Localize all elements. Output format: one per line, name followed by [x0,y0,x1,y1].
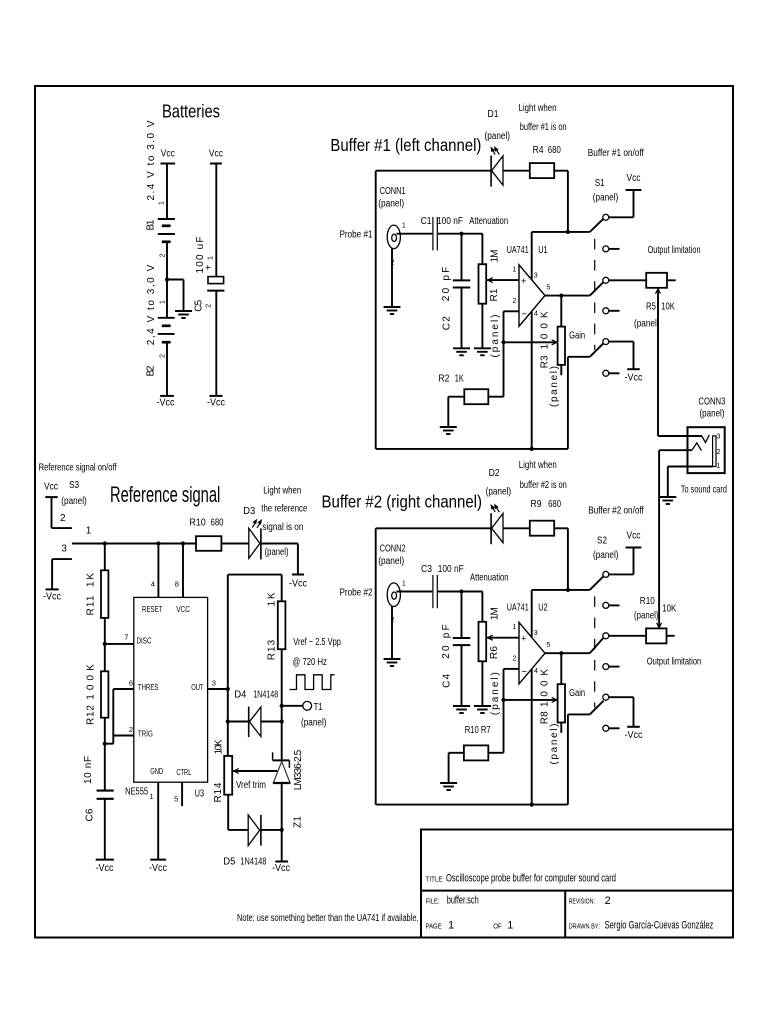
svg-text:5: 5 [174,794,178,803]
svg-text:-Vcc: -Vcc [157,398,175,409]
svg-text:D3: D3 [243,506,255,517]
svg-text:-Vcc: -Vcc [289,579,307,590]
svg-text:TRIG: TRIG [138,729,153,739]
svg-text:100 nF: 100 nF [437,216,463,227]
svg-text:R10: R10 [640,596,655,607]
svg-text:(panel): (panel) [700,408,725,419]
svg-text:R10: R10 [189,518,206,529]
svg-text:+: + [521,276,527,287]
svg-text:Attenuation: Attenuation [469,216,508,227]
svg-text:CTRL: CTRL [176,767,191,777]
svg-text:B1: B1 [146,219,157,230]
svg-text:1K: 1K [267,592,278,606]
svg-text:@ 720 Hz: @ 720 Hz [293,657,327,668]
svg-text:(panel): (panel) [634,319,660,330]
svg-text:signal is on: signal is on [262,522,303,533]
svg-text:1M: 1M [490,607,501,620]
svg-text:(panel): (panel) [549,724,560,765]
svg-text:U2: U2 [538,603,548,614]
svg-text:7: 7 [124,633,128,642]
svg-text:100 nF: 100 nF [438,564,464,575]
svg-text:+: + [521,634,527,645]
svg-text:1: 1 [513,267,517,274]
svg-text:2: 2 [605,895,611,907]
svg-text:C5: C5 [194,299,205,311]
svg-text:(panel): (panel) [61,496,87,507]
svg-text:B2: B2 [146,365,157,376]
svg-text:(panel): (panel) [378,199,404,210]
svg-text:3: 3 [534,630,538,637]
svg-text:Vcc: Vcc [209,149,223,160]
svg-text:C3: C3 [421,564,432,575]
svg-text:RESET: RESET [142,604,163,614]
svg-text:S1: S1 [595,178,605,189]
svg-text:10K: 10K [214,739,225,754]
svg-text:UA741: UA741 [507,245,529,256]
svg-text:2: 2 [513,656,517,663]
svg-text:20 pF: 20 pF [441,624,452,658]
svg-text:CONN1: CONN1 [380,186,406,197]
svg-text:R6: R6 [489,646,500,659]
svg-text:680: 680 [548,145,561,156]
svg-text:Probe #2: Probe #2 [340,587,373,598]
svg-text:8: 8 [175,579,179,588]
svg-text:-Vcc: -Vcc [207,398,225,409]
svg-text:Vcc: Vcc [627,531,641,542]
svg-text:Note: use something better tha: Note: use something better than the UA74… [237,913,419,924]
svg-text:PAGE: PAGE [426,924,442,931]
svg-text:2: 2 [206,304,213,308]
svg-text:Vcc: Vcc [161,149,175,160]
svg-text:2: 2 [159,354,166,358]
svg-text:Light when: Light when [519,103,557,114]
svg-text:1: 1 [159,300,166,304]
svg-text:T1: T1 [314,702,323,713]
svg-text:2: 2 [129,725,133,734]
svg-text:(panel): (panel) [549,366,560,407]
svg-text:2: 2 [60,513,66,524]
svg-text:CONN3: CONN3 [698,397,725,408]
svg-text:DRAWN BY:: DRAWN BY: [569,924,600,931]
svg-text:(panel): (panel) [486,487,512,498]
svg-text:Output limitation: Output limitation [648,245,701,256]
svg-text:Probe #1: Probe #1 [340,230,373,241]
svg-text:3: 3 [717,434,721,441]
svg-text:R2: R2 [438,374,449,385]
svg-text:1K: 1K [455,374,464,385]
svg-text:U3: U3 [195,789,205,800]
svg-text:REVISION:: REVISION: [569,899,595,906]
svg-text:2: 2 [159,253,166,257]
svg-text:−: − [522,667,528,678]
svg-text:1: 1 [150,792,154,801]
svg-text:R14: R14 [213,782,224,802]
svg-text:(panel): (panel) [634,611,659,622]
svg-text:Reference signal on/off: Reference signal on/off [39,463,117,474]
svg-text:Buffer #1 on/off: Buffer #1 on/off [588,148,644,159]
svg-text:Buffer #2 (right channel): Buffer #2 (right channel) [322,492,483,512]
svg-text:Gain: Gain [569,688,585,699]
svg-text:3: 3 [212,678,216,687]
svg-text:4: 4 [534,311,538,318]
svg-text:To sound card: To sound card [681,485,727,496]
svg-text:R12: R12 [85,705,96,725]
svg-text:10K: 10K [661,302,675,313]
svg-text:buffer.sch: buffer.sch [447,895,479,907]
svg-text:-Vcc: -Vcc [625,373,643,384]
svg-text:Buffer #2 on/off: Buffer #2 on/off [588,506,644,517]
svg-text:NE555: NE555 [125,787,148,798]
svg-text:(panel): (panel) [378,556,404,567]
svg-text:D2: D2 [489,468,500,479]
svg-text:2.4 V to 3.0 V: 2.4 V to 3.0 V [146,120,157,200]
svg-text:D5: D5 [223,857,235,868]
svg-text:2: 2 [513,298,517,305]
svg-text:Vref ~ 2.5 Vpp: Vref ~ 2.5 Vpp [293,637,341,648]
svg-text:R13: R13 [267,639,278,660]
svg-text:2: 2 [717,449,721,456]
svg-text:3: 3 [534,273,538,280]
svg-text:the reference: the reference [261,504,307,515]
svg-text:680: 680 [211,518,224,529]
svg-text:THRES: THRES [138,682,159,692]
svg-text:D4: D4 [234,690,246,701]
svg-text:(panel): (panel) [490,672,501,715]
svg-text:(panel): (panel) [485,131,511,142]
svg-text:buffer #2 is on: buffer #2 is on [520,480,567,491]
svg-text:FILE:: FILE: [426,898,440,905]
svg-text:-Vcc: -Vcc [43,592,61,603]
svg-text:1: 1 [159,201,166,205]
svg-text:R1: R1 [489,288,500,301]
svg-text:1: 1 [513,624,517,631]
svg-text:C2: C2 [441,316,452,330]
svg-text:1: 1 [86,526,92,537]
svg-text:4: 4 [151,579,155,588]
svg-text:1K: 1K [85,573,96,587]
svg-text:R8: R8 [540,711,551,724]
svg-text:C4: C4 [441,673,452,687]
svg-text:R9: R9 [531,499,542,510]
svg-text:Vcc: Vcc [44,482,58,493]
svg-text:1: 1 [402,580,406,587]
svg-text:-Vcc: -Vcc [625,730,643,741]
svg-text:R11: R11 [85,595,96,615]
svg-text:-Vcc: -Vcc [149,863,167,874]
svg-text:Output limitation: Output limitation [647,657,701,668]
svg-text:UA741: UA741 [507,603,529,614]
svg-text:S2: S2 [597,536,607,547]
svg-text:R4: R4 [533,145,544,156]
svg-text:10 nF: 10 nF [83,756,94,784]
svg-text:1: 1 [507,920,513,932]
svg-text:R10 R7: R10 R7 [465,725,491,736]
svg-text:10K: 10K [662,604,676,615]
svg-text:VCC: VCC [176,604,190,614]
svg-text:Z1: Z1 [293,816,304,828]
svg-text:Batteries: Batteries [162,102,220,122]
svg-text:1M: 1M [490,250,501,263]
svg-text:1: 1 [448,920,454,932]
svg-text:LM336-2.5: LM336-2.5 [293,749,304,790]
svg-text:Buffer #1 (left channel): Buffer #1 (left channel) [330,135,481,155]
svg-text:GND: GND [150,766,163,776]
svg-text:(panel): (panel) [265,547,289,558]
svg-text:1: 1 [717,463,721,470]
svg-text:CONN2: CONN2 [380,544,406,555]
svg-text:Oscilloscope probe buffer for: Oscilloscope probe buffer for computer s… [446,873,616,885]
svg-text:DISC: DISC [137,636,152,646]
svg-text:Attenuation: Attenuation [470,573,509,584]
svg-text:U1: U1 [538,245,548,256]
svg-text:D1: D1 [488,109,499,120]
svg-text:C1: C1 [421,216,432,227]
svg-text:5: 5 [546,642,550,649]
svg-text:4: 4 [534,668,538,675]
svg-text:20 pF: 20 pF [441,267,452,301]
svg-text:2: 2 [391,617,395,624]
svg-text:S3: S3 [69,480,79,491]
svg-text:-Vcc: -Vcc [96,863,114,874]
svg-text:2,4 V to 3,0 V: 2,4 V to 3,0 V [146,264,157,345]
svg-text:(panel): (panel) [593,193,619,204]
svg-text:(panel): (panel) [490,315,501,358]
svg-text:Reference signal: Reference signal [110,482,220,507]
svg-text:-Vcc: -Vcc [272,863,290,874]
svg-text:Light when: Light when [519,460,557,471]
svg-text:−: − [522,309,528,320]
svg-text:+: + [204,264,215,270]
svg-text:680: 680 [548,499,561,510]
svg-text:OUT: OUT [191,682,203,692]
svg-text:3: 3 [61,544,67,555]
svg-text:C6: C6 [84,808,95,821]
svg-text:TITLE: TITLE [426,877,443,884]
svg-text:1N4148: 1N4148 [240,857,266,868]
svg-text:Light when: Light when [263,486,301,497]
svg-text:1: 1 [402,223,406,230]
svg-text:5: 5 [546,285,550,292]
svg-text:2: 2 [391,260,395,267]
svg-text:(panel): (panel) [301,717,327,728]
svg-text:buffer #1 is on: buffer #1 is on [520,122,567,133]
svg-text:(panel): (panel) [593,550,619,561]
svg-text:Vref trim: Vref trim [236,780,266,791]
svg-text:Sergio García-Cuevas González: Sergio García-Cuevas González [605,920,714,932]
svg-text:OF: OF [493,924,502,931]
svg-text:Vcc: Vcc [627,173,641,184]
svg-text:1N4148: 1N4148 [253,690,278,701]
svg-text:6: 6 [129,678,133,687]
svg-text:Gain: Gain [569,330,585,341]
svg-text:1: 1 [208,256,215,260]
svg-text:R5: R5 [646,302,656,313]
